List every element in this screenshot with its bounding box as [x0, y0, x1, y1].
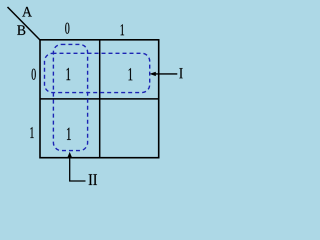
group loop I (dashed, top row pair) — [45, 53, 150, 92]
arrowhead II — [67, 152, 72, 158]
arrowhead I — [149, 72, 155, 76]
column header 0 — [65, 23, 69, 34]
grid middle horizontal line — [40, 98, 159, 100]
row header 0 — [32, 69, 36, 80]
cell value 1 (top-right cell) — [129, 68, 133, 80]
K-map grid outer border — [40, 40, 159, 158]
label B (row variable) — [17, 25, 25, 35]
row header 1 — [30, 127, 33, 138]
diagonal header divider — [8, 7, 41, 40]
arrow to loop I — [154, 73, 177, 75]
label A (column variable) — [22, 7, 32, 17]
cell value 1 (top-left cell) — [66, 68, 70, 80]
arrow to loop II — [70, 155, 86, 181]
column header 1 — [121, 24, 124, 35]
cell value 1 (bottom-left cell) — [67, 128, 71, 140]
label II (second stroke) — [93, 174, 97, 185]
grid middle vertical line — [99, 40, 101, 158]
label II (first stroke) — [89, 174, 93, 185]
label I — [179, 68, 182, 78]
group loop II (dashed, left column pair) — [53, 44, 87, 150]
